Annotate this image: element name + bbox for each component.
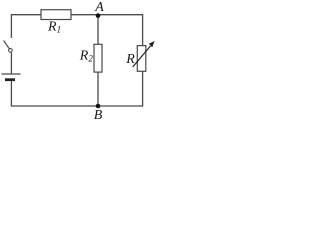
svg-text:A: A xyxy=(94,0,104,15)
wire left lower xyxy=(10,81,12,106)
wire top xyxy=(11,14,142,16)
wire left middle xyxy=(10,52,12,73)
svg-text:B: B xyxy=(94,108,103,123)
svg-text:R: R xyxy=(125,52,135,67)
svg-text:R2: R2 xyxy=(79,49,94,64)
wire middle branch xyxy=(97,15,99,106)
svg-text:R1: R1 xyxy=(47,20,61,35)
rheostat R arrowhead xyxy=(149,41,155,47)
switch S blade xyxy=(4,40,10,48)
battery long plate xyxy=(2,73,21,75)
wire right xyxy=(142,14,144,107)
wire bottom xyxy=(11,105,142,107)
wire left upper xyxy=(10,14,12,38)
resistor R1 body xyxy=(41,10,71,20)
node B dot xyxy=(96,104,101,109)
resistor R2 body xyxy=(94,44,102,72)
switch S contact circle xyxy=(9,49,13,53)
node A dot xyxy=(96,13,101,18)
rheostat R body xyxy=(137,46,146,72)
rheostat R arrow shaft xyxy=(133,46,151,67)
battery short thick plate xyxy=(5,78,15,81)
